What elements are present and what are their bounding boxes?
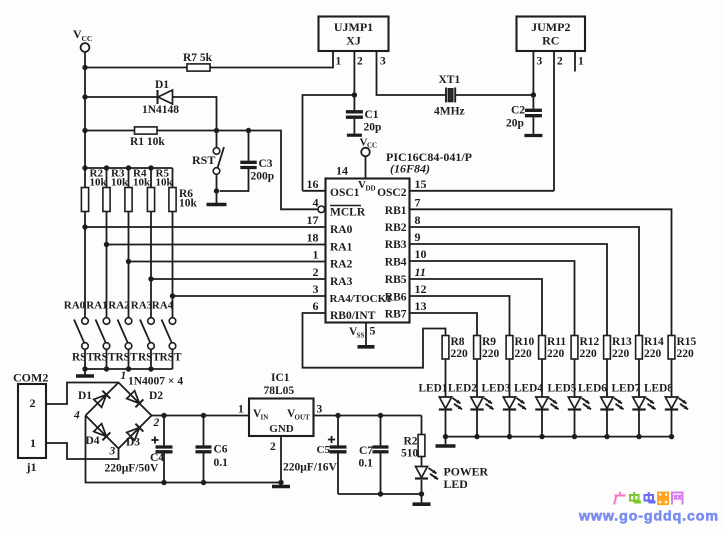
- pin number 12 (right): [415, 282, 427, 296]
- switch key S4 (RA3): [140, 318, 154, 350]
- pin number 13 (right): [415, 299, 427, 313]
- wire LED1 cathode to rail: [445, 411, 447, 437]
- label RST under switch S5: [160, 352, 182, 364]
- pin 1 label of IC1: [238, 404, 244, 416]
- wire R1/MCLR line: [85, 131, 317, 210]
- wire switch S1 to common rail: [84, 349, 86, 369]
- pin name OSC1: [330, 187, 360, 199]
- pin name RA0: [330, 224, 353, 236]
- wire LED2 cathode to rail: [476, 411, 478, 437]
- resistor R14 220: [636, 336, 664, 361]
- junction RA4 tap: [170, 293, 175, 298]
- svg-text:LED6: LED6: [578, 383, 607, 395]
- svg-text:1: 1: [578, 56, 584, 68]
- svg-text:MCLR: MCLR: [330, 207, 366, 219]
- diode D1 1N4148: [142, 79, 179, 116]
- wire R9 to LED2: [476, 359, 478, 397]
- junction rail-R5: [148, 165, 153, 170]
- svg-text:220μF/16V: 220μF/16V: [283, 462, 337, 474]
- wire RB1 to R15 column: [410, 209, 672, 335]
- wire R5 column down to key switch: [150, 212, 152, 318]
- wire RA2 to IC pin: [129, 261, 326, 263]
- switch key S1 (RA0): [74, 318, 88, 350]
- svg-text:C3: C3: [259, 158, 273, 170]
- junction RA0 tap: [82, 224, 87, 229]
- pin 1 of JUMP2 stub: [575, 51, 584, 72]
- junction C7 top: [378, 413, 383, 418]
- pin 3 of UJMP1: [377, 51, 446, 95]
- ground below C2: [524, 134, 542, 137]
- wire R11 to LED4: [541, 359, 543, 397]
- pin name RB3: [385, 239, 407, 251]
- svg-text:7: 7: [415, 195, 421, 209]
- svg-text:RST: RST: [94, 352, 116, 364]
- svg-text:220: 220: [451, 348, 469, 360]
- svg-text:10k: 10k: [156, 177, 174, 189]
- svg-text:RB5: RB5: [385, 274, 407, 286]
- svg-text:CC: CC: [82, 34, 93, 43]
- wire R2 column down to key switch: [84, 212, 86, 318]
- svg-text:RB1: RB1: [385, 205, 407, 217]
- pin name RB5: [385, 274, 407, 286]
- svg-text:R15: R15: [677, 336, 697, 348]
- svg-text:18: 18: [307, 231, 319, 245]
- svg-text:9: 9: [415, 230, 421, 244]
- svg-text:3: 3: [380, 56, 386, 68]
- wire RA3 to IC pin: [151, 278, 326, 280]
- wire switch common rail: [85, 368, 173, 370]
- resistor R13 220: [604, 336, 632, 361]
- svg-text:RA3: RA3: [131, 300, 153, 312]
- pin number 9 (right): [415, 230, 421, 244]
- pin 2 of JUMP2: [554, 51, 563, 191]
- ground of LED rail: [436, 437, 456, 446]
- junction C5 top: [335, 413, 340, 418]
- pin number 16 (left): [307, 177, 319, 191]
- svg-text:RC: RC: [542, 34, 559, 48]
- junction rail-R3: [104, 165, 109, 170]
- resistor R4 10k: [125, 168, 151, 212]
- LED LED7: [632, 397, 655, 410]
- resistor R3 10k: [103, 168, 129, 212]
- connector COM2 j1: [13, 371, 48, 475]
- svg-text:RB2: RB2: [385, 222, 407, 234]
- junction LED rail: [539, 434, 544, 439]
- svg-text:C2: C2: [511, 105, 525, 117]
- LED LED4: [535, 397, 558, 410]
- capacitor C6 0.1: [196, 416, 229, 483]
- svg-text:RB3: RB3: [385, 239, 407, 251]
- switch RST (main reset): [192, 147, 224, 174]
- label Vcc: [73, 27, 92, 43]
- svg-text:220: 220: [515, 348, 533, 360]
- svg-text:2: 2: [270, 441, 276, 453]
- op IC U1 PIC16C84 body: [326, 179, 410, 323]
- capacitor C1 20p: [346, 95, 382, 134]
- svg-text:LED5: LED5: [548, 383, 577, 395]
- LED LED3: [503, 397, 526, 410]
- junction rail-R4: [126, 165, 131, 170]
- svg-text:10k: 10k: [133, 177, 151, 189]
- wire R12 to LED5: [574, 359, 576, 397]
- svg-text:1: 1: [30, 436, 36, 450]
- pin number 15 (right): [415, 177, 427, 191]
- wire D1 line: [85, 97, 217, 148]
- svg-text:17: 17: [307, 213, 319, 227]
- pin number 10 (right): [415, 247, 427, 261]
- junction switch rail: [82, 366, 87, 371]
- svg-text:LED7: LED7: [612, 383, 641, 395]
- svg-text:RB4: RB4: [385, 257, 407, 269]
- svg-text:C6: C6: [214, 444, 228, 456]
- pin name RB1: [385, 205, 407, 217]
- resistor R7: [183, 52, 213, 71]
- svg-text:RA0: RA0: [64, 300, 86, 312]
- LED power indicator: [415, 457, 489, 503]
- pin name RB0/INT: [330, 310, 376, 322]
- wire RA0 to IC pin: [85, 226, 326, 228]
- label 1N4007 x 4: [128, 376, 183, 388]
- svg-text:15: 15: [415, 177, 427, 191]
- wire Vcc column: [84, 52, 86, 168]
- svg-text:3: 3: [313, 282, 319, 296]
- regulator IC1 78L05: [249, 372, 314, 436]
- svg-text:CC: CC: [367, 142, 377, 150]
- svg-text:LED2: LED2: [448, 383, 477, 395]
- wire OSC1 stub: [303, 190, 326, 192]
- svg-text:1N4007 × 4: 1N4007 × 4: [128, 376, 183, 388]
- pin number 6 (left): [313, 299, 319, 313]
- resistor R8 220: [442, 336, 468, 361]
- LED LED2: [470, 397, 493, 410]
- svg-text:1: 1: [336, 56, 342, 68]
- resistor R15 220: [668, 336, 696, 361]
- pin name OSC2: [377, 187, 407, 199]
- wire OSC1 net to IC: [303, 95, 355, 191]
- resistor R6 10k: [169, 168, 198, 212]
- svg-text:2: 2: [357, 56, 363, 68]
- svg-text:2: 2: [313, 265, 319, 279]
- junction MCLR-C3: [246, 128, 251, 133]
- svg-text:XT1: XT1: [439, 74, 461, 86]
- wire LED common cathode rail: [446, 436, 672, 438]
- svg-text:14: 14: [336, 164, 348, 178]
- LED LED5: [568, 397, 591, 410]
- svg-text:R12: R12: [580, 336, 600, 348]
- svg-text:OSC2: OSC2: [377, 187, 407, 199]
- svg-text:16: 16: [307, 177, 319, 191]
- wire LED8 cathode to rail: [671, 411, 673, 437]
- wire bridge negative to 0V rail: [86, 416, 282, 483]
- switch key S3 (RA2): [118, 318, 132, 350]
- svg-text:R2: R2: [404, 436, 418, 448]
- svg-text:JUMP2: JUMP2: [531, 20, 570, 34]
- node Vcc supply terminal: [81, 43, 90, 52]
- svg-text:220: 220: [482, 348, 500, 360]
- crystal XT1 4MHz: [434, 74, 465, 118]
- junction LED rail: [636, 434, 641, 439]
- connector JUMP2 RC: [517, 17, 586, 52]
- svg-text:10k: 10k: [179, 198, 198, 210]
- pin number 17 (left): [307, 213, 319, 227]
- svg-text:20p: 20p: [364, 122, 382, 134]
- resistor R2 510: [401, 416, 425, 460]
- junction C7 bottom: [378, 491, 383, 496]
- svg-text:13: 13: [415, 299, 427, 313]
- capacitor C4 220uF/50V electrolytic: [105, 416, 173, 483]
- wire LED6 cathode to rail: [606, 411, 608, 437]
- junction LED rail: [507, 434, 512, 439]
- svg-text:3: 3: [317, 404, 323, 416]
- wire bridge positive rail to regulator: [152, 415, 250, 417]
- svg-text:1: 1: [121, 370, 127, 382]
- junction C6 top: [201, 413, 206, 418]
- pin name RA3: [330, 276, 353, 288]
- svg-text:RA4/TOCK1: RA4/TOCK1: [330, 293, 392, 305]
- svg-text:DD: DD: [366, 185, 376, 193]
- wire R3 column down to key switch: [106, 212, 108, 318]
- svg-text:j1: j1: [26, 460, 37, 474]
- pin 2 of UJMP1: [354, 51, 363, 95]
- wire R13 to LED6: [606, 359, 608, 397]
- svg-text:220: 220: [677, 348, 695, 360]
- svg-text:R11: R11: [547, 336, 566, 348]
- svg-text:R10: R10: [515, 336, 535, 348]
- wire switch S2 to common rail: [106, 349, 108, 369]
- pin name VDD: [358, 179, 376, 193]
- label PIC16C84-041/P: [386, 150, 472, 176]
- label RST under switch S2: [94, 352, 116, 364]
- junction C4 top: [161, 413, 166, 418]
- junction LED rail: [604, 434, 609, 439]
- svg-text:20p: 20p: [506, 118, 524, 130]
- junction switch rail: [104, 366, 109, 371]
- junction LED rail: [443, 434, 448, 439]
- svg-text:D3: D3: [126, 437, 140, 449]
- junction LED rail: [474, 434, 479, 439]
- switch key S5 (RA4): [162, 318, 176, 350]
- pin 2 GND of IC1: [270, 436, 281, 483]
- svg-text:D4: D4: [86, 435, 100, 447]
- junction C6 bottom: [201, 480, 206, 485]
- wire RST to ground: [216, 174, 218, 203]
- svg-text:3: 3: [537, 56, 543, 68]
- junction OSC1 net: [352, 92, 357, 97]
- ground below power LED: [413, 502, 431, 506]
- power VSS pin5 ground: [349, 323, 376, 347]
- wire LED4 cathode to rail: [541, 411, 543, 437]
- svg-text:200p: 200p: [251, 171, 275, 183]
- junction 0V at regulator GND: [278, 480, 283, 485]
- svg-text:RA0: RA0: [330, 224, 353, 236]
- svg-text:SS: SS: [357, 332, 365, 340]
- svg-text:RB6: RB6: [385, 292, 407, 304]
- capacitor C7 0.1: [359, 416, 389, 495]
- svg-text:3: 3: [109, 446, 116, 458]
- pin 3 label of IC1: [317, 404, 323, 416]
- svg-text:8: 8: [415, 213, 421, 227]
- svg-text:www.go-gddq.com: www.go-gddq.com: [578, 509, 719, 525]
- junction switch rail: [148, 366, 153, 371]
- junction switch rail: [126, 366, 131, 371]
- wire R14 to LED7: [638, 359, 640, 397]
- pin name RB2: [385, 222, 407, 234]
- svg-text:COM2: COM2: [13, 371, 48, 385]
- junction LED rail: [572, 434, 577, 439]
- junction LED rail: [669, 434, 674, 439]
- svg-text:RA2: RA2: [108, 300, 130, 312]
- svg-text:220μF/50V: 220μF/50V: [105, 463, 159, 475]
- pin name RA1: [330, 242, 353, 254]
- svg-text:C5: C5: [317, 444, 331, 456]
- diode D4 (bridge): [86, 424, 111, 447]
- svg-text:RST: RST: [160, 352, 182, 364]
- junction C2 node: [531, 92, 536, 97]
- ground of 0V rail: [272, 483, 290, 487]
- svg-text:RB7: RB7: [385, 309, 407, 321]
- svg-text:RA2: RA2: [330, 259, 353, 271]
- svg-text:5: 5: [370, 324, 376, 338]
- watermark url: [578, 509, 719, 525]
- junction C4 bottom: [161, 480, 166, 485]
- connector UJMP1 XJ: [319, 17, 389, 52]
- svg-text:R13: R13: [612, 336, 632, 348]
- svg-text:0.1: 0.1: [214, 457, 229, 469]
- wire RA1 to IC pin: [107, 244, 326, 246]
- wire R7 line to UJMP1 pin1: [85, 51, 333, 68]
- svg-text:D1: D1: [78, 390, 92, 402]
- svg-text:LED: LED: [444, 477, 468, 491]
- pin MCLR bubble: [318, 206, 325, 213]
- svg-text:RST: RST: [192, 153, 215, 167]
- junction Vcc-R1: [82, 128, 87, 133]
- wire RA4 to IC pin: [173, 295, 326, 297]
- svg-text:LED4: LED4: [514, 383, 543, 395]
- resistor R1: [130, 127, 165, 148]
- svg-text:C1: C1: [365, 109, 379, 121]
- capacitor C3 200p: [220, 131, 274, 192]
- svg-text:510: 510: [401, 448, 419, 460]
- svg-text:LED1: LED1: [419, 383, 448, 395]
- capacitor C5 220uF/16V electrolytic: [283, 416, 347, 495]
- pin name RA2: [330, 259, 353, 271]
- svg-text:IC1: IC1: [271, 372, 290, 384]
- resistor R10 220: [506, 336, 534, 361]
- wire R8 to LED1: [445, 359, 447, 397]
- LED LED1: [439, 397, 462, 410]
- resistor R11 220: [539, 336, 567, 361]
- diode D1 (bridge): [78, 390, 110, 407]
- wire Vout to R2 column: [314, 415, 422, 417]
- svg-text:LED3: LED3: [482, 383, 511, 395]
- wire switch S3 to common rail: [128, 349, 130, 369]
- LED LED6: [600, 397, 623, 410]
- wire R6 column down to key switch: [172, 212, 174, 318]
- ground below RST: [207, 203, 227, 207]
- wire RB3 to R13 column: [410, 244, 608, 336]
- pin number 2 (left): [313, 265, 319, 279]
- wire R15 to LED8: [671, 359, 673, 397]
- svg-text:12: 12: [415, 282, 427, 296]
- wire LED5 cathode to rail: [574, 411, 576, 437]
- wire RB4 to R12 column: [410, 261, 575, 336]
- pin name MCLR with overline: [330, 206, 366, 219]
- svg-text:R7 5k: R7 5k: [183, 52, 213, 64]
- junction RA1 tap: [104, 242, 109, 247]
- pin number 7 (right): [415, 195, 421, 209]
- labels RA0-RA4 above key switches: [64, 300, 174, 312]
- svg-text:4: 4: [313, 196, 319, 210]
- wire LED7 cathode to rail: [638, 411, 640, 437]
- svg-text:220: 220: [644, 348, 662, 360]
- resistor R12 220: [571, 336, 599, 361]
- wire RB2 to R14 column: [410, 227, 640, 336]
- junction Vcc-pullup rail: [82, 165, 87, 170]
- svg-text:11: 11: [415, 265, 426, 279]
- wire switch S5 to common rail: [172, 349, 174, 369]
- junction Vcc-D1: [82, 94, 87, 99]
- svg-text:2: 2: [557, 56, 563, 68]
- resistor R2 10k: [81, 168, 107, 212]
- svg-text:RA1: RA1: [86, 300, 107, 312]
- pin 3 of JUMP2: [533, 51, 542, 95]
- diode D2 (bridge): [127, 390, 164, 407]
- wire COM2 pin1 to bridge AC2: [46, 443, 119, 459]
- svg-text:RST: RST: [72, 352, 94, 364]
- ground of key switch rail: [76, 369, 94, 376]
- bridge rectifier frame: [86, 383, 152, 449]
- resistor R9 220: [474, 336, 500, 361]
- junction power LED bottom: [419, 491, 424, 496]
- junction RA2 tap: [126, 259, 131, 264]
- svg-text:XJ: XJ: [346, 34, 361, 48]
- svg-text:1: 1: [238, 404, 244, 416]
- svg-text:RA1: RA1: [330, 242, 353, 254]
- LED LED8: [665, 397, 688, 410]
- svg-text:C7: C7: [359, 445, 373, 457]
- svg-text:RA4: RA4: [152, 300, 174, 312]
- pin number 18 (left): [307, 231, 319, 245]
- svg-text:220: 220: [580, 348, 598, 360]
- wire RB7 to R9 column: [410, 313, 478, 336]
- pin name RB7: [385, 309, 407, 321]
- svg-text:RST: RST: [138, 352, 160, 364]
- svg-text:4MHz: 4MHz: [434, 106, 465, 118]
- diode D3 (bridge): [126, 424, 143, 449]
- junction Vcc-R7: [82, 65, 87, 70]
- wire pullup top rail: [85, 167, 173, 169]
- pin name RA4/TOCK1: [330, 293, 392, 305]
- junction MCLR-RST: [214, 128, 219, 133]
- svg-text:RB0/INT: RB0/INT: [330, 310, 376, 322]
- labels LED1-LED8: [419, 383, 674, 395]
- svg-text:IN: IN: [261, 414, 269, 422]
- svg-text:R8: R8: [451, 336, 465, 348]
- svg-text:2: 2: [30, 396, 36, 410]
- svg-text:10k: 10k: [111, 177, 129, 189]
- pin number 1 (left): [313, 248, 319, 262]
- svg-text:GND: GND: [269, 423, 294, 435]
- svg-text:LED8: LED8: [644, 383, 673, 395]
- junction RA3 tap: [148, 276, 153, 281]
- pin number 11 (right): [415, 265, 426, 279]
- svg-text:10k: 10k: [90, 177, 108, 189]
- bridge corner numbers: [73, 370, 160, 458]
- svg-text:R1 10k: R1 10k: [130, 136, 165, 148]
- svg-text:D2: D2: [149, 390, 163, 402]
- wire R4 column down to key switch: [128, 212, 130, 318]
- wire LED3 cathode to rail: [509, 411, 511, 437]
